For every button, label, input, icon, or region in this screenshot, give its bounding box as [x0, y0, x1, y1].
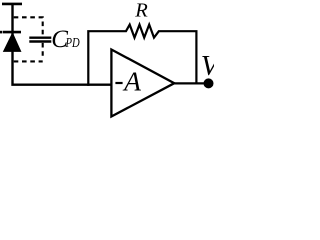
svg-text:R: R: [134, 0, 148, 22]
wire: left vertical branch: [13, 4, 114, 85]
photodiode D1 cathode bar: [3, 31, 21, 34]
label minus of -A: [115, 82, 122, 84]
capacitor CPD top plate: [29, 37, 51, 39]
wire: output: [174, 82, 208, 84]
photodiode D1 triangle: [4, 33, 21, 51]
wire: feedback loop with resistor R: [88, 25, 196, 86]
bias rail bar: [2, 3, 22, 6]
node: output dot: [204, 78, 214, 88]
op-amp U1 triangle: [111, 50, 174, 117]
capacitor CPD bottom plate: [29, 40, 51, 42]
wire: dashed branch of CPD (top, right, bottom): [14, 17, 43, 61]
svg-text:V: V: [201, 50, 214, 82]
photodiode D1 cropped light arrow stub: [0, 31, 2, 34]
svg-text:PD: PD: [65, 36, 80, 51]
svg-text:A: A: [122, 65, 141, 96]
